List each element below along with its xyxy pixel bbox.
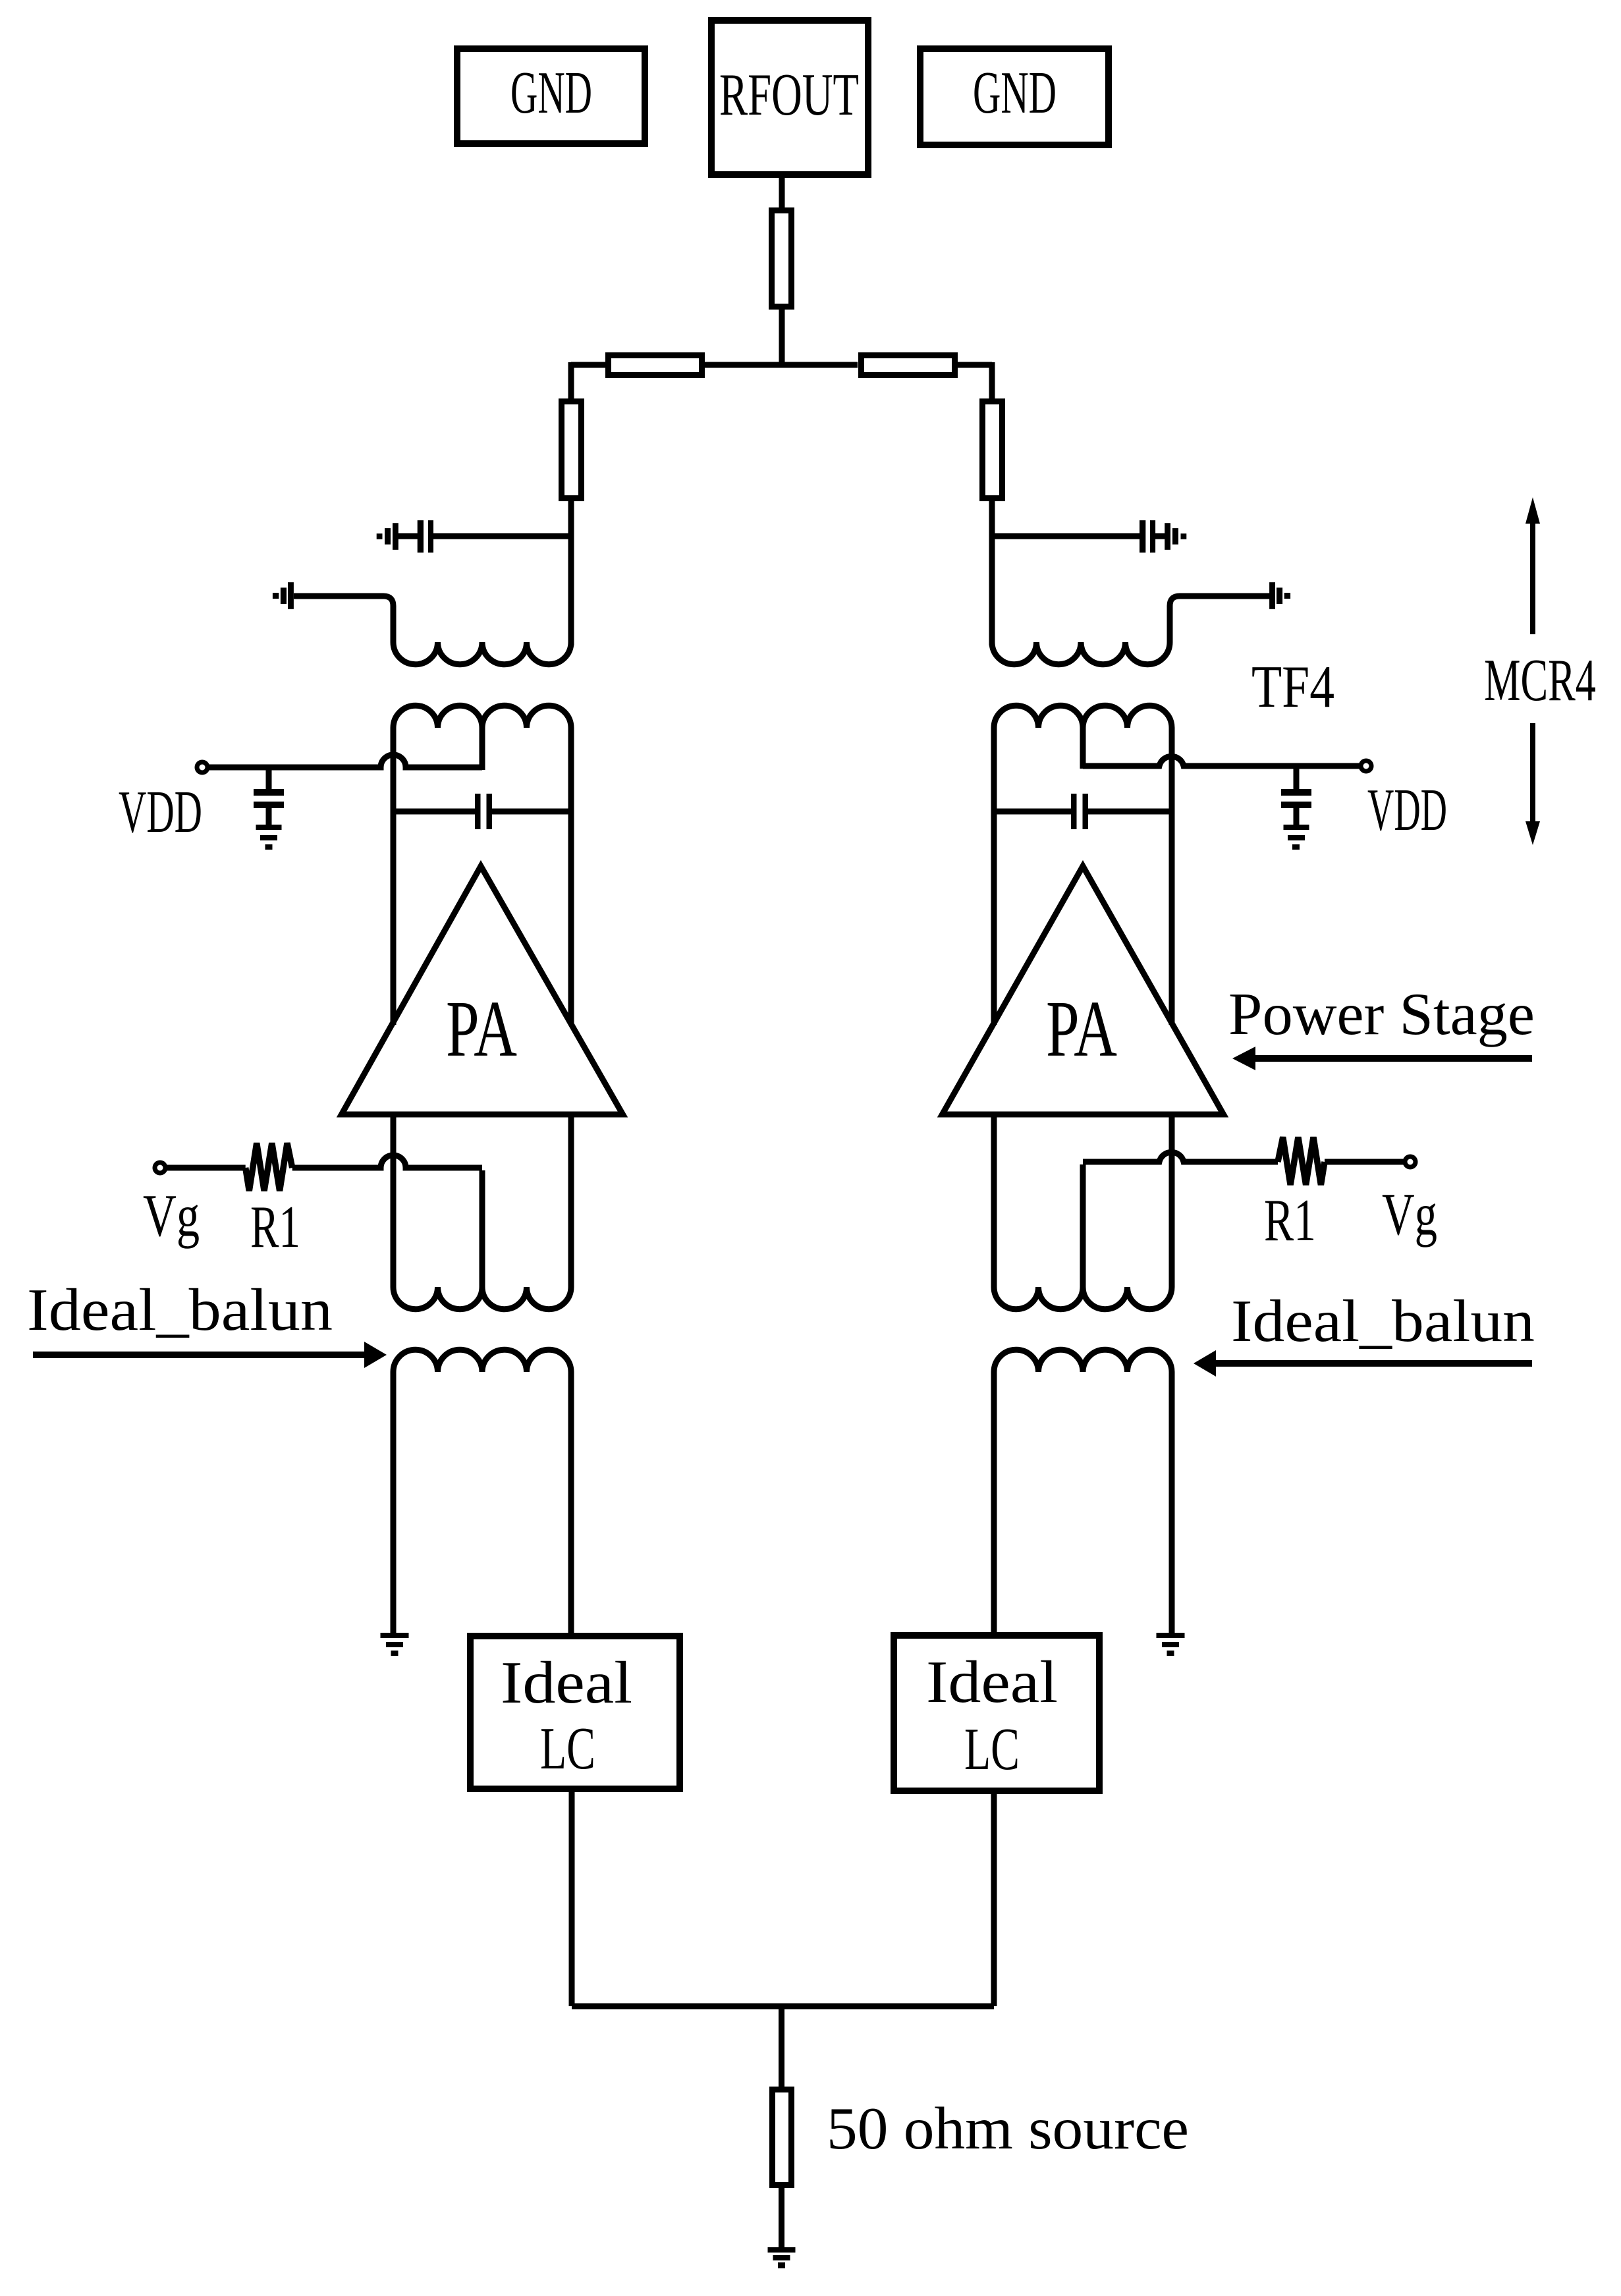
port P4 symbol right secondary (square and bars) xyxy=(1284,593,1290,599)
transformer TF4 left primary winding with drain rails xyxy=(393,705,571,1025)
ground symbol balun left xyxy=(381,1633,409,1638)
transformer balun left primary winding xyxy=(393,1350,571,1633)
node T-junction horizontal wire xyxy=(571,362,992,368)
terminal circle Vg right xyxy=(1405,1157,1415,1167)
capacitor C4 VDD bypass right plates xyxy=(1281,789,1311,796)
svg-text:Ideal_balun: Ideal_balun xyxy=(27,1276,333,1343)
wire left LC to merge xyxy=(569,1792,575,2006)
wire gate rails right PA xyxy=(994,1114,1172,1287)
wire VDD feed left with hop over rail xyxy=(208,755,482,767)
svg-text:PA: PA xyxy=(1046,985,1117,1074)
pad box GND (left) xyxy=(457,49,645,144)
resistor R1 left zigzag xyxy=(246,1143,292,1191)
wire balun left center-tap xyxy=(480,1170,485,1287)
wire left AC-coupling cap to node xyxy=(397,533,571,539)
transformer balun right primary winding xyxy=(994,1350,1172,1633)
wire right corner down xyxy=(989,362,995,402)
port P3 symbol left secondary (square and bars) xyxy=(273,593,279,599)
wire cross-coupling cap right xyxy=(994,809,1172,815)
wire right AC-coupling cap to node xyxy=(992,533,1166,539)
transformer TF4 right primary winding with drain rails xyxy=(994,705,1172,1025)
transformer TF4 left secondary winding xyxy=(294,596,571,665)
svg-text:VDD: VDD xyxy=(119,779,202,845)
transmission line TL3 (horizontal, right) xyxy=(862,356,955,375)
arrow Ideal_balun left (points right) xyxy=(33,1352,366,1358)
transmission line TL2 (horizontal, left) xyxy=(609,356,702,375)
capacitor C1 left AC-coupling plates xyxy=(418,520,424,553)
transmission line 50-ohm source xyxy=(773,2090,792,2185)
arrow Power Stage (points left) xyxy=(1253,1055,1532,1062)
svg-text:Vg: Vg xyxy=(143,1182,200,1249)
arrow MCR4 up xyxy=(1530,522,1535,634)
wire gate bias right with resistor R1 and hop xyxy=(1083,1152,1404,1162)
wire source TL to ground xyxy=(779,2185,784,2247)
wire balun right center-tap xyxy=(1080,1164,1086,1287)
wire TL1 to T-junction xyxy=(779,306,785,368)
wire VDD feed right with hop over rail xyxy=(1083,756,1360,766)
svg-text:Ideal: Ideal xyxy=(926,1649,1058,1715)
transformer TF4 right secondary winding xyxy=(992,498,1270,665)
terminal circle VDD right xyxy=(1361,761,1371,771)
wire TF4 right center-tap xyxy=(1080,728,1086,769)
svg-text:RFOUT: RFOUT xyxy=(719,61,859,128)
svg-text:MCR4: MCR4 xyxy=(1484,647,1596,713)
capacitor C2 right AC-coupling plates xyxy=(1140,520,1145,553)
wire TF4 left center-tap xyxy=(480,728,485,770)
port P1 symbol left (square and bars) xyxy=(377,533,383,539)
svg-text:GND: GND xyxy=(510,59,592,126)
op-amp PA left triangle xyxy=(342,866,623,1114)
ground symbol balun right xyxy=(1157,1633,1185,1638)
svg-text:Ideal: Ideal xyxy=(501,1649,632,1716)
svg-text:TF4: TF4 xyxy=(1251,653,1334,720)
svg-text:LC: LC xyxy=(540,1715,595,1782)
terminal circle VDD left xyxy=(197,762,207,773)
box Ideal LC right xyxy=(894,1635,1099,1791)
wire VDD right bypass cap stubs xyxy=(1294,766,1300,826)
wire right LC to merge xyxy=(991,1793,997,2006)
wire right branch TL5 to transformer secondary xyxy=(989,498,995,645)
box Ideal LC left xyxy=(470,1636,680,1789)
wire cross-coupling cap left xyxy=(393,809,571,815)
pad box RFOUT xyxy=(711,20,868,175)
capacitor C6 cross-coupling right plates xyxy=(1071,794,1077,829)
wire merge horizontal xyxy=(572,2004,994,2009)
capacitor C5 cross-coupling left plates xyxy=(475,794,481,829)
arrow Ideal_balun right (points left) xyxy=(1215,1360,1532,1367)
ground symbol below C3 xyxy=(256,825,282,830)
svg-text:50 ohm source: 50 ohm source xyxy=(827,2095,1189,2162)
svg-text:LC: LC xyxy=(964,1716,1020,1782)
op-amp PA right triangle xyxy=(943,866,1224,1114)
wire gate bias left with resistor R1 and hop xyxy=(166,1155,482,1168)
wire gate rails left PA xyxy=(393,1114,571,1287)
svg-text:Power Stage: Power Stage xyxy=(1228,981,1535,1047)
svg-text:R1: R1 xyxy=(250,1193,300,1260)
transmission line TL1 (vertical, under RFOUT) xyxy=(772,211,792,307)
wire VDD left bypass cap stubs xyxy=(266,767,272,826)
ground symbol below C4 xyxy=(1284,825,1309,830)
svg-text:VDD: VDD xyxy=(1367,777,1447,843)
terminal circle Vg left xyxy=(155,1162,165,1173)
wire corner left branch down xyxy=(568,362,574,402)
pad box GND (right) xyxy=(920,49,1109,145)
svg-text:Ideal_balun: Ideal_balun xyxy=(1231,1288,1535,1354)
svg-text:GND: GND xyxy=(973,59,1057,126)
capacitor C3 VDD bypass left plates xyxy=(254,789,284,796)
svg-text:R1: R1 xyxy=(1264,1187,1316,1253)
transmission line TL4 (vertical, left branch) xyxy=(562,402,582,499)
arrow MCR4 down xyxy=(1530,723,1535,823)
wire RFOUT to TL1 xyxy=(779,177,785,211)
resistor R1 right zigzag xyxy=(1278,1137,1325,1186)
ground symbol 50-ohm source xyxy=(768,2247,796,2253)
svg-text:PA: PA xyxy=(446,985,517,1074)
transformer balun left secondary winding xyxy=(393,1284,571,1309)
transmission line TL5 (vertical, right branch) xyxy=(983,402,1003,499)
transformer balun right secondary winding xyxy=(994,1284,1172,1309)
wire merge to source TL xyxy=(779,2006,784,2090)
port P2 symbol right (square and bars) xyxy=(1181,533,1187,539)
wire left branch TL4 to transformer secondary xyxy=(568,498,574,645)
svg-text:Vg: Vg xyxy=(1382,1181,1437,1247)
